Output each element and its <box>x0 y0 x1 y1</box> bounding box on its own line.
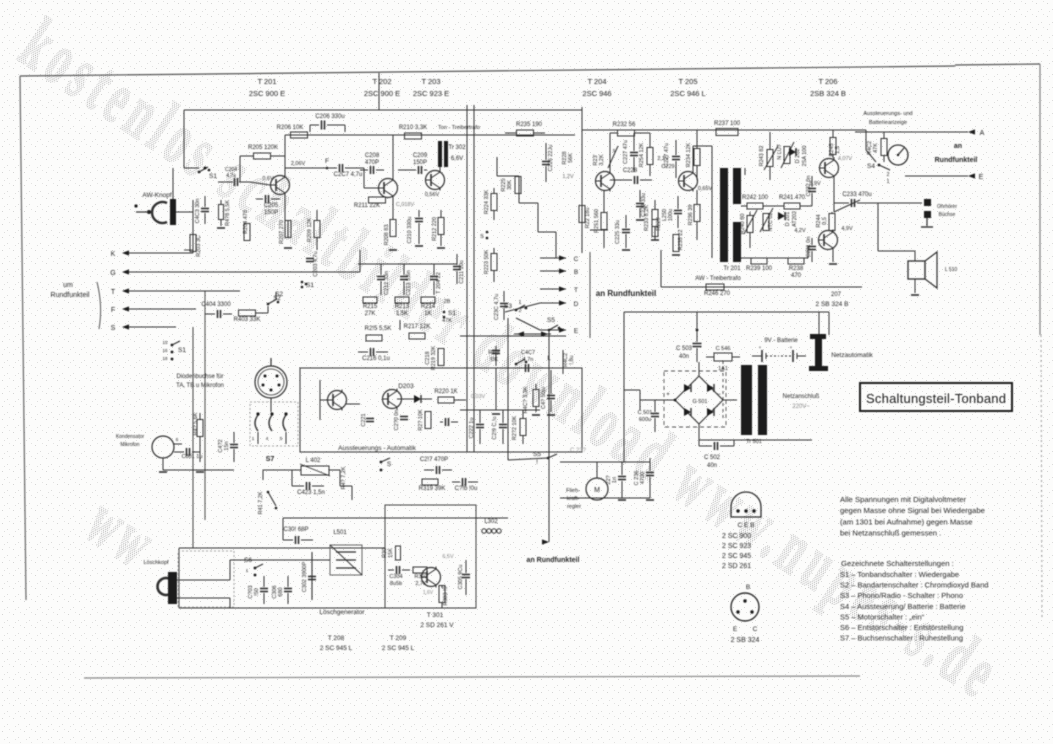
svg-text:600u: 600u <box>639 417 651 423</box>
wire to T202 base <box>363 168 365 188</box>
svg-text:S4: S4 <box>867 163 875 170</box>
svg-text:T 208: T 208 <box>328 635 345 642</box>
resistor R202 5,6K <box>219 205 224 220</box>
svg-text:R2? 10K: R2? 10K <box>418 409 424 431</box>
svg-text:C226 22Ju: C226 22Ju <box>548 145 554 172</box>
svg-text:1K: 1K <box>424 311 431 317</box>
svg-text:100u: 100u <box>668 209 674 221</box>
svg-text:2 SD 261 V: 2 SD 261 V <box>420 622 454 629</box>
svg-text:C302 3900P: C302 3900P <box>302 561 308 592</box>
svg-text:4,07V: 4,07V <box>838 156 853 162</box>
svg-text:C404 3300: C404 3300 <box>201 302 231 308</box>
svg-text:16: 16 <box>162 348 168 353</box>
svg-text:R242 100: R242 100 <box>742 195 769 201</box>
AW head core bar <box>170 199 176 225</box>
svg-text:−: − <box>717 392 721 398</box>
svg-text:Gezeichnete Schalterstellunge: Gezeichnete Schalterstellungen : <box>841 559 954 568</box>
svg-text:Aussteuerungs - Automatik: Aussteuerungs - Automatik <box>338 445 416 452</box>
svg-text:R4? 5,6K: R4? 5,6K <box>193 412 199 435</box>
node B mid <box>540 270 566 272</box>
svg-text:R4? 7,2K: R4? 7,2K <box>341 466 347 489</box>
transistor T206 <box>820 159 839 178</box>
wire T feed <box>150 290 240 292</box>
wire T205 to trafo <box>693 145 712 147</box>
wire rail to meter <box>865 130 867 150</box>
wire S feed <box>150 326 176 328</box>
svg-text:C222 1u: C222 1u <box>469 418 475 439</box>
wire mains bottom <box>699 439 740 441</box>
svg-text:2 SC 900: 2 SC 900 <box>722 533 751 540</box>
svg-text:2SC 946: 2SC 946 <box>582 89 611 98</box>
DIN lower dashed box <box>250 402 298 446</box>
svg-text:L 510: L 510 <box>945 267 958 273</box>
svg-text:6,6V: 6,6V <box>451 156 463 162</box>
svg-text:C: C <box>753 626 758 633</box>
svg-text:2,1V: 2,1V <box>657 156 669 162</box>
svg-text:C228: C228 <box>623 168 638 174</box>
svg-text:C304: C304 <box>389 574 402 580</box>
wire h mid2 <box>205 290 240 292</box>
svg-text:470: 470 <box>791 273 802 279</box>
svg-text:C 23?: C 23? <box>570 448 587 454</box>
svg-text:2: 2 <box>887 172 890 178</box>
frame top border <box>20 66 955 76</box>
svg-text:Büchse: Büchse <box>939 212 956 218</box>
svg-text:S2: S2 <box>273 296 281 302</box>
svg-text:47K: 47K <box>442 318 452 324</box>
wire F feed <box>150 308 196 310</box>
wire double arrow <box>514 333 551 335</box>
meter M <box>888 145 908 165</box>
svg-text:2SC 923 E: 2SC 923 E <box>413 89 449 98</box>
title box Schaltungsteil-Tonband <box>860 383 1012 411</box>
svg-text:R2?2 10K: R2?2 10K <box>512 415 518 440</box>
svg-text:R243 82: R243 82 <box>759 146 765 167</box>
svg-text:S1 – Tonbandschalter : Wieder: S1 – Tonbandschalter : Wiedergabe <box>840 570 959 579</box>
mains transformer core bar right <box>758 365 767 435</box>
svg-text:AW - Treibertrafo: AW - Treibertrafo <box>695 276 741 282</box>
svg-text:R210 3,3K: R210 3,3K <box>399 125 427 131</box>
output transformer core bar right upper <box>733 168 741 204</box>
svg-text:R237 100: R237 100 <box>714 121 741 127</box>
wire v1 <box>507 318 509 336</box>
switch S mid dots <box>486 231 489 234</box>
resistor R238b <box>807 246 809 258</box>
wire cluster drop <box>399 320 401 330</box>
transistor T-auto-2 <box>383 390 402 409</box>
power box top <box>624 311 829 313</box>
svg-text:0,56V: 0,56V <box>425 192 440 198</box>
svg-text:C211 10u: C211 10u <box>459 260 465 283</box>
svg-text:C233 470u: C233 470u <box>842 192 871 198</box>
svg-text:B: B <box>574 269 578 276</box>
svg-text:S1: S1 <box>178 347 186 354</box>
svg-text:R241 470: R241 470 <box>779 195 806 201</box>
svg-text:R212 220: R212 220 <box>432 217 438 241</box>
output transformer core bar left <box>720 168 728 262</box>
svg-text:C208: C208 <box>365 153 380 159</box>
wire S3 line <box>505 303 540 312</box>
svg-text:C 503: C 503 <box>676 346 693 352</box>
wire mid rail <box>285 134 575 136</box>
AW head coil <box>152 202 167 223</box>
svg-text:S: S <box>480 234 484 240</box>
svg-text:L302: L302 <box>484 519 498 525</box>
svg-text:S6 – Entstörschalter : Entstö: S6 – Entstörschalter : Entstörstellung <box>840 623 963 632</box>
svg-text:2 SB 324: 2 SB 324 <box>731 637 760 644</box>
svg-text:C2C7 4,7u: C2C7 4,7u <box>334 172 363 178</box>
wire into T201 base <box>250 182 270 185</box>
svg-text:R4?8 5,5K: R4?8 5,5K <box>225 200 231 226</box>
svg-text:0,5: 0,5 <box>822 217 828 225</box>
svg-text:T 205: T 205 <box>678 77 697 86</box>
svg-text:C206 330u: C206 330u <box>315 114 344 120</box>
svg-text:R236 39: R236 39 <box>688 205 694 226</box>
switch S2 contact <box>268 299 277 304</box>
svg-text:Kondensator: Kondensator <box>116 434 145 440</box>
svg-text:150P: 150P <box>413 160 427 166</box>
svg-text:M: M <box>594 487 600 494</box>
svg-text:R235 190: R235 190 <box>516 122 543 128</box>
wire long v to osc <box>192 327 194 548</box>
svg-text:E: E <box>733 626 738 633</box>
svg-text:1,5K: 1,5K <box>396 311 408 317</box>
svg-text:gegen Masse ohne Signal bei Wi: gegen Masse ohne Signal bei Wiedergabe <box>840 506 985 515</box>
node E mid <box>540 329 566 331</box>
svg-text:R238: R238 <box>789 266 804 272</box>
svg-text:S5: S5 <box>547 317 555 324</box>
wire vertical pair 2 <box>473 105 475 452</box>
wire mic bus <box>199 445 201 462</box>
svg-text:Alle Spannungen mit Digitalvol: Alle Spannungen mit Digitalvoltmeter <box>840 495 966 504</box>
wire cluster bus <box>358 263 457 265</box>
svg-text:R302: R302 <box>414 574 427 580</box>
svg-text:T 203: T 203 <box>421 77 440 86</box>
svg-text:Ton - Treibertrafo: Ton - Treibertrafo <box>438 125 480 131</box>
svg-text:56K: 56K <box>568 153 574 163</box>
wire bracket vertical <box>589 252 591 338</box>
svg-text:L501: L501 <box>333 530 347 536</box>
node C mid <box>540 257 566 259</box>
microphone <box>152 436 174 458</box>
svg-text:R214: R214 <box>421 304 436 310</box>
wire vertical pair 1 <box>466 105 468 452</box>
wire bridge left <box>640 399 675 401</box>
svg-text:an: an <box>954 143 962 150</box>
svg-text:C203 4,7u: C203 4,7u <box>313 251 319 276</box>
bridge rectifier G501 dashed box <box>664 371 726 427</box>
svg-text:S1: S1 <box>448 310 456 317</box>
svg-text:B: B <box>746 584 750 591</box>
svg-text:4700: 4700 <box>640 472 646 484</box>
svg-text:C221: C221 <box>361 413 367 426</box>
svg-text:Rundfunkteil: Rundfunkteil <box>935 157 978 164</box>
svg-text:C2?0 0n: C2?0 0n <box>394 410 400 431</box>
svg-text:E: E <box>979 174 984 181</box>
svg-text:(am 1301 bei Aufnahme) gegen M: (am 1301 bei Aufnahme) gegen Masse <box>840 517 972 526</box>
wire output node <box>833 178 835 212</box>
svg-text:R254 12K: R254 12K <box>639 142 645 167</box>
svg-text:C225 33u: C225 33u <box>615 220 621 244</box>
pinout 2SC (TO-92 half-moon) <box>731 492 761 517</box>
wire inner-box left edge <box>183 110 185 168</box>
wire head up <box>172 168 174 199</box>
svg-text:S5 – Motorschalter : „ein“: S5 – Motorschalter : „ein“ <box>840 612 925 621</box>
svg-text:T: T <box>111 289 116 296</box>
svg-text:an Rundfunkteil: an Rundfunkteil <box>596 289 656 298</box>
svg-text:S7: S7 <box>266 456 275 463</box>
wire mic gnd <box>162 458 164 470</box>
svg-text:470P: 470P <box>365 160 379 166</box>
svg-text:C205: C205 <box>264 203 279 209</box>
svg-text:an Rundfunkteil: an Rundfunkteil <box>527 557 580 564</box>
wire fuse dash <box>722 361 724 420</box>
svg-text:N LU7: N LU7 <box>777 144 783 160</box>
fuse Si501 <box>714 353 732 361</box>
mains plug Netzautomatik <box>810 334 826 339</box>
wire G-row link <box>359 250 361 272</box>
svg-text:40n: 40n <box>707 463 717 469</box>
svg-text:R224 33K: R224 33K <box>484 189 490 214</box>
svg-text:R319 39K: R319 39K <box>419 486 446 492</box>
svg-text:S1: S1 <box>306 282 314 289</box>
svg-text:C23C 4,7u: C23C 4,7u <box>494 294 500 320</box>
wire left slant bracket <box>97 282 101 329</box>
erase head core bar <box>168 572 177 604</box>
svg-text:C229: C229 <box>661 164 674 170</box>
speaker <box>908 261 925 279</box>
svg-text:L 402: L 402 <box>306 458 321 464</box>
svg-text:R220 1K: R220 1K <box>434 389 457 395</box>
transistor T203 <box>426 171 445 190</box>
svg-text:0,6V: 0,6V <box>262 176 274 182</box>
svg-text:regler: regler <box>567 504 581 510</box>
svg-text:2SC 900 E: 2SC 900 E <box>249 89 285 98</box>
svg-text:R233 8,2K: R233 8,2K <box>644 205 650 231</box>
svg-text:Netzautomatik: Netzautomatik <box>831 352 873 359</box>
wire bottom bus <box>230 559 330 561</box>
svg-text:Batterieanzeige: Batterieanzeige <box>869 120 907 126</box>
svg-text:AW-Knopf: AW-Knopf <box>142 192 171 199</box>
wire feed power left <box>624 389 640 391</box>
svg-text:S: S <box>111 325 116 332</box>
svg-text:8u5b: 8u5b <box>390 581 402 587</box>
wire T204 collector <box>609 133 611 172</box>
svg-text:C4C3 30n: C4C3 30n <box>195 199 201 224</box>
svg-text:C227 47u: C227 47u <box>623 140 629 164</box>
svg-text:C423 1,5n: C423 1,5n <box>297 490 325 496</box>
svg-text:R4C? 3,3K: R4C? 3,3K <box>523 386 529 413</box>
transistor T-auto-1 <box>328 391 347 410</box>
svg-text:9V - Batterie: 9V - Batterie <box>764 338 798 344</box>
svg-text:C?!b !0u: C?!b !0u <box>455 486 478 492</box>
svg-text:R213: R213 <box>395 304 410 310</box>
svg-text:C213 5,6n: C213 5,6n <box>406 270 412 295</box>
svg-text:C4? 50ju: C4? 50ju <box>541 387 547 409</box>
output transformer core bar right lower <box>733 222 741 262</box>
wire E row long <box>460 335 566 337</box>
svg-text:2 SC 945: 2 SC 945 <box>722 553 751 560</box>
svg-text:S7 – Buchsenschalter : Ruhest: S7 – Buchsenschalter : Ruhestellung <box>840 634 963 643</box>
transistor T201 <box>271 176 290 195</box>
svg-text:C4C7: C4C7 <box>521 350 535 356</box>
wire left power feed <box>507 336 509 460</box>
svg-text:R206 10K: R206 10K <box>277 125 304 131</box>
svg-text:R203 3C: R203 3C <box>196 235 202 257</box>
svg-text:1,2V: 1,2V <box>562 174 574 180</box>
wire K feed <box>150 252 193 254</box>
svg-text:TA, TB u Mikrofon: TA, TB u Mikrofon <box>176 383 224 389</box>
svg-text:S1: S1 <box>209 173 217 180</box>
wire top border drop <box>378 73 380 110</box>
wire T207 emitter gnd <box>832 250 834 262</box>
svg-text:220V~: 220V~ <box>792 404 810 410</box>
svg-text:4,9V: 4,9V <box>841 226 853 232</box>
bridge rectifier diamond <box>675 376 723 424</box>
transistor T205 <box>679 172 698 191</box>
svg-text:2 SC 945 L: 2 SC 945 L <box>320 645 353 652</box>
svg-text:R403 33K: R403 33K <box>234 317 261 323</box>
svg-text:!,8u: !,8u <box>569 355 575 364</box>
svg-text:Aussteuerungs- und: Aussteuerungs- und <box>863 111 912 117</box>
svg-text:C 546: C 546 <box>716 346 731 352</box>
svg-text:F: F <box>111 307 115 314</box>
wire T202 collector <box>392 135 394 179</box>
svg-text:R41 7,2K: R41 7,2K <box>258 491 264 514</box>
svg-text:2 SC 923: 2 SC 923 <box>722 543 751 550</box>
svg-text:R209 12K: R209 12K <box>307 217 313 242</box>
svg-text:S2 – Bandartenschalter : Chro: S2 – Bandartenschalter : Chromdioxyd Ban… <box>840 581 988 590</box>
svg-text:T 204 22: T 204 22 <box>436 272 442 294</box>
wire AW to S1 <box>176 211 193 213</box>
svg-text:150P: 150P <box>264 210 278 216</box>
svg-text:+: + <box>790 345 793 350</box>
svg-text:D203: D203 <box>398 383 414 390</box>
svg-text:+: + <box>666 392 670 398</box>
motor M <box>586 478 608 500</box>
svg-text:1: 1 <box>887 179 890 185</box>
svg-text:T 301: T 301 <box>427 612 444 619</box>
svg-text:Löschgenerator: Löschgenerator <box>319 609 365 616</box>
wire long v2 <box>204 291 206 520</box>
svg-text:kraft-: kraft- <box>567 496 580 502</box>
svg-text:C2!9 C,!u: C2!9 C,!u <box>492 416 498 439</box>
wire T205 collector up <box>692 146 694 172</box>
wire E arrow right <box>905 175 968 177</box>
wire head to osc <box>177 579 230 581</box>
svg-text:T 206: T 206 <box>818 77 837 86</box>
svg-text:C 502: C 502 <box>704 455 721 461</box>
svg-text:0,65V: 0,65V <box>698 186 713 192</box>
svg-text:R205 120K: R205 120K <box>248 145 278 151</box>
svg-text:R211 22K: R211 22K <box>354 203 380 209</box>
svg-text:Netzanschluß: Netzanschluß <box>783 394 820 400</box>
svg-text:C 501: C 501 <box>638 410 653 416</box>
svg-text:AT202: AT202 <box>792 211 798 227</box>
capacitor small <box>445 418 447 426</box>
svg-text:T 202: T 202 <box>372 77 391 86</box>
svg-text:C E B: C E B <box>738 522 755 529</box>
svg-text:D 201: D 201 <box>785 212 791 227</box>
wire staircase feedback <box>496 157 498 176</box>
frame left border <box>20 76 26 600</box>
svg-text:C30! 68P: C30! 68P <box>283 527 308 533</box>
svg-text:2 SD 261: 2 SD 261 <box>722 563 751 570</box>
svg-text:6,5V: 6,5V <box>442 554 454 560</box>
wire plug up <box>818 312 820 334</box>
svg-text:T 201: T 201 <box>257 77 276 86</box>
svg-text:T: T <box>574 287 578 294</box>
wire h mid1 <box>184 249 193 251</box>
transistor T202 <box>379 179 398 198</box>
svg-text:!: ! <box>536 459 538 466</box>
wire power box right <box>828 312 830 318</box>
svg-text:!50: !50 <box>254 588 260 596</box>
wire S5 drop <box>548 330 550 336</box>
svg-text:C801 1u: C801 1u <box>182 454 203 460</box>
svg-text:Mikrofon: Mikrofon <box>120 442 139 448</box>
svg-text:30K: 30K <box>507 180 513 190</box>
svg-text:C,018V: C,018V <box>396 202 415 208</box>
svg-text:C2!7 470P: C2!7 470P <box>420 457 448 463</box>
erase head coil <box>158 578 170 595</box>
svg-text:E: E <box>574 328 579 335</box>
wire auto bus2 <box>460 409 540 411</box>
svg-text:4,2V: 4,2V <box>794 228 806 234</box>
wire bottom long rail <box>661 286 862 288</box>
wire auto internals <box>320 399 327 401</box>
node D mid <box>540 302 566 304</box>
wire L drop <box>548 352 550 540</box>
wire bottom rail left drop <box>660 250 662 287</box>
wire speaker gnd <box>914 279 916 293</box>
svg-text:R246 270: R246 270 <box>704 291 731 297</box>
svg-text:S6: S6 <box>244 557 252 564</box>
svg-text:1,6V: 1,6V <box>423 590 434 596</box>
DIN connector lower pins <box>255 415 258 431</box>
wire osc bottom <box>178 548 180 608</box>
svg-text:18: 18 <box>162 356 168 361</box>
wire S2 up <box>275 292 277 300</box>
transistor T301 <box>422 568 441 587</box>
transistor T207 <box>819 231 838 250</box>
svg-text:Löschkopf: Löschkopf <box>143 560 169 566</box>
driver transformer Tr302 core <box>438 141 442 167</box>
svg-text:2B: 2B <box>444 299 451 305</box>
frame right border <box>1039 64 1041 335</box>
svg-text:680: 680 <box>278 587 284 596</box>
svg-text:C232 0n: C232 0n <box>806 176 812 197</box>
svg-text:15K: 15K <box>388 548 394 558</box>
svg-text:Tr 201: Tr 201 <box>723 266 741 272</box>
earphone jack <box>924 199 931 206</box>
mains transformer core bar left <box>741 365 752 435</box>
node A arrow <box>968 129 975 134</box>
DIN connector upper <box>255 366 287 398</box>
svg-text:2 SB 324 B: 2 SB 324 B <box>816 301 849 308</box>
wire buchse drop <box>270 398 272 412</box>
svg-text:R215: R215 <box>363 304 378 310</box>
svg-text:Rundfunkteil: Rundfunkteil <box>51 292 90 299</box>
svg-text:C212 33n: C212 33n <box>384 271 390 295</box>
wire trafo bottom row <box>741 257 808 259</box>
wire L402 loop <box>291 470 293 486</box>
svg-text:2 SC 945 L: 2 SC 945 L <box>382 645 415 652</box>
wire row k <box>263 469 292 471</box>
wire G feed <box>150 271 360 273</box>
wire output to jack <box>874 202 922 204</box>
svg-text:40n: 40n <box>679 354 689 360</box>
